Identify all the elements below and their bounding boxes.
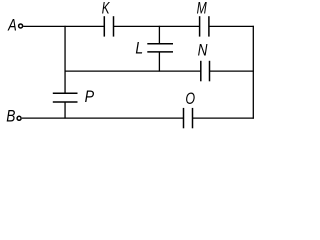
wire: right rail bbox=[252, 26, 254, 119]
svg-text:L: L bbox=[135, 40, 143, 58]
svg-text:P: P bbox=[85, 88, 95, 106]
wire: L branch from top wire to L top plate bbox=[158, 26, 160, 44]
capacitor O bbox=[184, 108, 193, 128]
terminal B circle bbox=[17, 116, 21, 120]
svg-text:N: N bbox=[198, 42, 208, 60]
svg-text:B: B bbox=[6, 108, 15, 126]
wire: K right plate to M left plate bbox=[114, 25, 200, 27]
wire: P bottom plate down to bottom wire bbox=[64, 102, 66, 119]
capacitor P bbox=[53, 93, 78, 102]
capacitor K bbox=[104, 16, 113, 36]
svg-text:A: A bbox=[7, 17, 17, 35]
svg-text:K: K bbox=[102, 0, 110, 17]
terminal A circle bbox=[19, 24, 23, 28]
wire: left rail from top wire down to P top plate bbox=[64, 26, 66, 94]
svg-text:O: O bbox=[185, 90, 195, 108]
capacitor M bbox=[200, 16, 209, 36]
wire: A to K left plate bbox=[23, 25, 104, 27]
wire: L bottom plate down to middle wire bbox=[158, 52, 160, 72]
capacitor N bbox=[201, 61, 210, 82]
capacitor L bbox=[147, 44, 173, 52]
wire: M right plate to top-right corner bbox=[209, 25, 254, 27]
wire: N right plate to right rail bbox=[210, 70, 254, 72]
wire: O right plate to bottom-right corner bbox=[193, 117, 254, 119]
wire: B to O left plate bbox=[22, 117, 184, 119]
svg-text:M: M bbox=[197, 0, 207, 18]
wire: middle wire from left rail to N left plate bbox=[65, 70, 201, 72]
